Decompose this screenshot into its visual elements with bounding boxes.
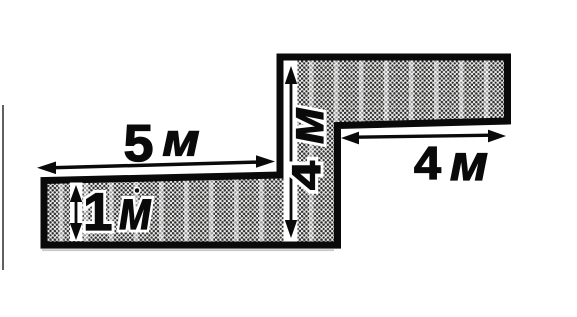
label 1 m (with white halo over fill)	[83, 178, 152, 242]
svg-text:м: м	[450, 135, 488, 191]
dimension arrow 1m (vertical, inside bottom rect)	[70, 185, 82, 240]
dimension arrow 5m (horizontal, above bottom rect)	[37, 155, 275, 174]
svg-text:1: 1	[83, 183, 112, 242]
Z-shaped figure: halftone fill	[44, 57, 508, 245]
Z-shaped figure: thick black border	[44, 57, 508, 245]
svg-text:5: 5	[124, 115, 154, 173]
svg-text:4: 4	[285, 160, 329, 190]
stray dot above m of 1m label	[134, 188, 140, 194]
label 4 m (rotated 90 CCW, inside bar)	[278, 107, 334, 190]
stray scan line at left edge	[2, 105, 4, 270]
svg-text:м: м	[163, 115, 200, 166]
svg-text:м: м	[278, 107, 334, 144]
white halo for 1m arrow	[70, 183, 83, 242]
dimension arrow 4m (vertical, inside bar)	[285, 66, 297, 238]
dimension arrow 4m (horizontal, right)	[341, 130, 506, 145]
soft scan shadow under bottom border	[42, 249, 334, 251]
svg-text:4: 4	[414, 137, 441, 189]
fill streak overlay	[44, 57, 508, 245]
white channel for vertical arrow inside bar	[284, 61, 298, 242]
bottom border extra thickness	[41, 247, 342, 249]
